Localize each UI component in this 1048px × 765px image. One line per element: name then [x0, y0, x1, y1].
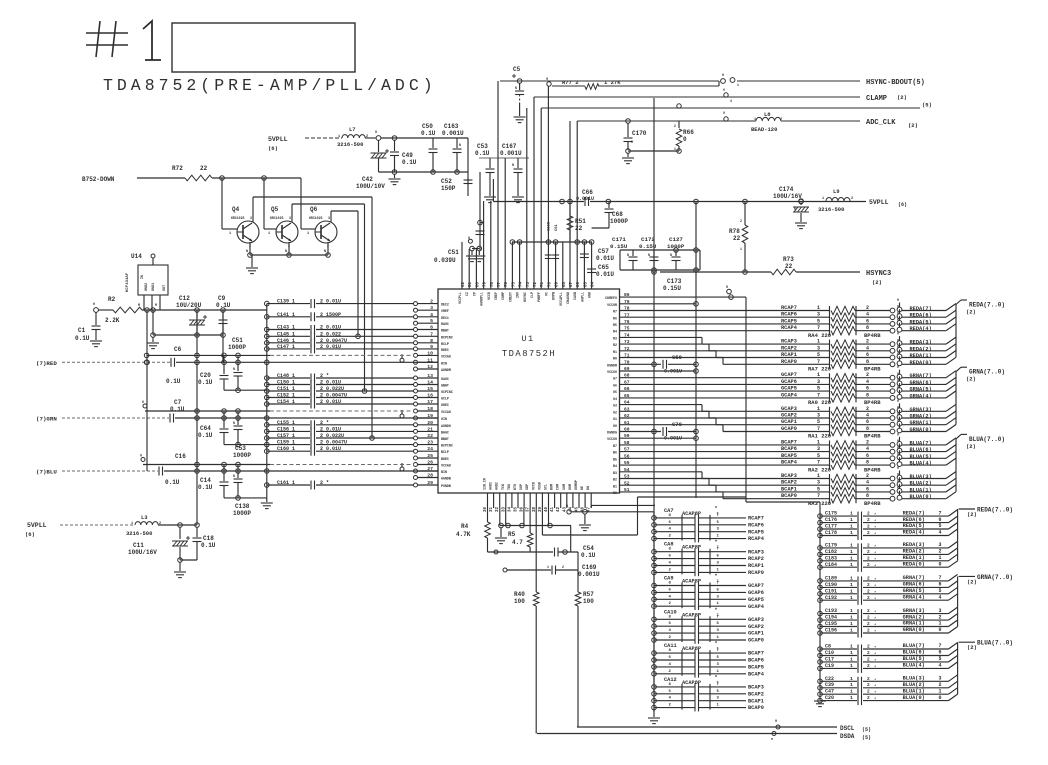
svg-text:ADC_CLK: ADC_CLK: [866, 119, 896, 127]
svg-text:GRNA(7..0): GRNA(7..0): [977, 574, 1013, 581]
svg-text:0: 0: [897, 352, 899, 356]
svg-text:C49: C49: [402, 152, 413, 159]
svg-text:5: 5: [817, 386, 820, 392]
svg-text:13: 13: [427, 373, 433, 379]
svg-text:2 0.01U: 2 0.01U: [320, 344, 341, 350]
svg-text:2 0.01U: 2 0.01U: [320, 446, 341, 452]
svg-text:G7: G7: [613, 377, 617, 381]
svg-text:2: 2: [780, 118, 782, 122]
svg-text:*: *: [874, 584, 876, 589]
svg-text:B5: B5: [613, 457, 617, 461]
svg-text:C171: C171: [612, 236, 626, 243]
svg-text:1: 1: [850, 650, 853, 656]
svg-text:2: 2: [562, 565, 564, 569]
svg-text:1: 1: [307, 232, 309, 236]
svg-text:3216-500: 3216-500: [126, 530, 152, 537]
svg-text:1: 1: [850, 676, 853, 682]
svg-text:N: N: [794, 207, 796, 211]
svg-text:2: 2: [867, 682, 870, 688]
svg-text:29: 29: [427, 480, 433, 486]
svg-text:7: 7: [817, 325, 820, 331]
svg-text:1: 1: [939, 688, 942, 694]
svg-text:C167: C167: [502, 143, 517, 150]
svg-text:C50: C50: [422, 123, 433, 130]
svg-text:G2: G2: [613, 410, 617, 414]
svg-text:GCAP4: GCAP4: [781, 392, 798, 398]
svg-text:BLUA(2): BLUA(2): [910, 481, 932, 487]
svg-text:2: 2: [867, 562, 870, 568]
svg-text:0.1U: 0.1U: [166, 378, 181, 385]
svg-text:(5): (5): [922, 102, 932, 109]
svg-text:7: 7: [939, 643, 942, 649]
svg-text:CREXT: CREXT: [508, 292, 512, 302]
svg-text:(5): (5): [862, 727, 871, 733]
svg-text:0.1U: 0.1U: [216, 302, 231, 309]
svg-text:1000P: 1000P: [233, 452, 251, 459]
svg-text:CZ: CZ: [465, 292, 469, 296]
svg-text:RCAP7: RCAP7: [748, 516, 764, 522]
svg-text:DE: DE: [580, 486, 584, 490]
svg-text:BCAP7: BCAP7: [781, 439, 797, 445]
svg-text:TDO: TDO: [507, 484, 511, 490]
svg-text:GBWT: GBWT: [441, 384, 449, 388]
svg-text:GND2: GND2: [145, 283, 149, 291]
svg-text:1: 1: [850, 582, 853, 588]
svg-text:(7)RED: (7)RED: [36, 360, 57, 367]
svg-text:0: 0: [897, 486, 899, 490]
svg-text:2: 2: [939, 614, 942, 620]
svg-text:BCAP4: BCAP4: [748, 671, 765, 677]
svg-text:RAGC: RAGC: [441, 322, 449, 326]
svg-text:0: 0: [897, 365, 899, 369]
svg-text:2: 2: [867, 621, 870, 627]
svg-text:IN: IN: [141, 275, 145, 279]
svg-text:GRNA(3): GRNA(3): [903, 608, 925, 614]
svg-text:5: 5: [817, 453, 820, 459]
svg-text:22: 22: [575, 225, 583, 232]
svg-text:1: 1: [817, 339, 820, 345]
svg-text:*: *: [874, 658, 876, 663]
svg-text:RCAP5: RCAP5: [781, 318, 797, 324]
svg-text:C18: C18: [203, 535, 214, 542]
svg-text:5VPLL: 5VPLL: [27, 522, 47, 529]
svg-text:Q6: Q6: [310, 206, 318, 213]
svg-text:C127: C127: [669, 236, 683, 243]
svg-text:C161 1: C161 1: [277, 480, 295, 486]
svg-text:BCPINC: BCPINC: [441, 444, 453, 448]
svg-text:0: 0: [897, 466, 899, 470]
svg-text:1: 1: [850, 695, 853, 701]
svg-text:68: 68: [563, 281, 567, 287]
svg-text:22: 22: [427, 433, 433, 439]
svg-text:79: 79: [484, 281, 488, 287]
svg-text:2: 2: [867, 595, 870, 601]
svg-text:7: 7: [817, 392, 820, 398]
svg-text:BLUA(1): BLUA(1): [903, 688, 925, 694]
svg-text:REDA(4): REDA(4): [903, 530, 925, 536]
svg-text:B1: B1: [613, 484, 617, 488]
svg-text:0: 0: [939, 695, 942, 701]
svg-text:0: 0: [897, 412, 899, 416]
svg-text:1: 1: [850, 663, 853, 669]
svg-text:3: 3: [289, 216, 291, 220]
svg-text:C20: C20: [825, 695, 834, 701]
svg-text:KCF431AF: KCF431AF: [126, 272, 130, 292]
svg-text:BLUA(6): BLUA(6): [910, 447, 932, 453]
svg-text:2: 2: [740, 219, 742, 223]
svg-text:C190: C190: [825, 582, 837, 588]
svg-text:C155 1: C155 1: [277, 420, 295, 426]
svg-text:RCAP1: RCAP1: [781, 352, 797, 358]
svg-text:1: 1: [850, 517, 853, 523]
svg-text:2: 2: [867, 689, 870, 695]
svg-text:3216-500: 3216-500: [818, 206, 844, 213]
svg-text:RCAP3: RCAP3: [748, 549, 764, 555]
svg-text:HSYNC: HSYNC: [523, 292, 527, 302]
svg-text:B7: B7: [613, 444, 617, 448]
svg-text:0: 0: [897, 453, 899, 457]
svg-text:64: 64: [592, 281, 596, 287]
svg-text:0.1U: 0.1U: [421, 130, 436, 137]
svg-text:BLUA(3): BLUA(3): [910, 474, 932, 480]
svg-text:M: M: [138, 303, 140, 307]
svg-text:AGNDPLL: AGNDPLL: [480, 292, 484, 306]
svg-text:N: N: [648, 253, 650, 257]
svg-text:R77 2: R77 2: [562, 79, 579, 86]
svg-text:SOP: SOP: [519, 484, 523, 490]
svg-text:C1: C1: [78, 327, 86, 334]
svg-text:100U/16V: 100U/16V: [773, 193, 802, 200]
svg-text:*: *: [874, 652, 876, 657]
svg-text:1: 1: [939, 555, 942, 561]
svg-text:REDA(3): REDA(3): [910, 340, 932, 346]
svg-text:B0: B0: [613, 491, 617, 495]
svg-text:2: 2: [867, 676, 870, 682]
svg-text:BCAP0: BCAP0: [748, 705, 764, 711]
svg-text:L8: L8: [764, 111, 771, 118]
svg-text:REDA(5): REDA(5): [910, 319, 932, 325]
svg-text:*: *: [874, 532, 876, 537]
svg-text:GCAP6: GCAP6: [748, 590, 764, 596]
svg-text:B752-DOWN: B752-DOWN: [82, 176, 115, 183]
svg-text:9: 9: [723, 88, 725, 92]
svg-text:BLUA(7): BLUA(7): [910, 440, 932, 446]
svg-text:R6: R6: [613, 316, 617, 320]
svg-text:2.2K: 2.2K: [105, 317, 120, 324]
svg-text:2: 2: [867, 608, 870, 614]
svg-text:*: *: [874, 519, 876, 524]
svg-text:G0: G0: [613, 424, 617, 428]
svg-text:DW: DW: [586, 486, 590, 490]
svg-text:CAGB: CAGB: [573, 292, 577, 300]
svg-text:BCAP4: BCAP4: [781, 460, 798, 466]
svg-text:N: N: [627, 253, 629, 257]
svg-text:70: 70: [548, 281, 552, 287]
svg-text:8: 8: [430, 338, 433, 344]
svg-text:3: 3: [328, 216, 330, 220]
svg-text:BCAP3: BCAP3: [748, 685, 764, 691]
svg-text:BLUA(4): BLUA(4): [910, 461, 932, 467]
svg-text:C183: C183: [825, 555, 837, 561]
svg-text:GIN: GIN: [441, 417, 447, 421]
svg-text:(2): (2): [967, 511, 977, 518]
svg-text:C179: C179: [825, 542, 837, 548]
svg-text:C64: C64: [200, 425, 211, 432]
svg-text:100U/10V: 100U/10V: [356, 183, 385, 190]
svg-text:KRC102S: KRC102S: [231, 216, 244, 220]
svg-text:100: 100: [514, 598, 525, 605]
svg-text:RCAP1: RCAP1: [748, 563, 764, 569]
svg-text:20: 20: [427, 420, 433, 426]
svg-text:1: 1: [850, 549, 853, 555]
svg-text:TDA8752(PRE-AMP/PLL/ADC): TDA8752(PRE-AMP/PLL/ADC): [103, 76, 437, 95]
svg-text:GRNA(0): GRNA(0): [903, 627, 925, 633]
svg-text:REDA(5): REDA(5): [903, 523, 925, 529]
svg-text:1: 1: [850, 588, 853, 594]
svg-text:1: 1: [850, 595, 853, 601]
svg-text:*: *: [874, 623, 876, 628]
svg-text:7: 7: [817, 426, 820, 432]
svg-text:0.001U: 0.001U: [500, 150, 522, 157]
svg-text:21: 21: [427, 426, 433, 432]
svg-text:R3: R3: [613, 336, 617, 340]
svg-text:0.1U: 0.1U: [170, 406, 185, 413]
svg-text:DEC1: DEC1: [441, 316, 449, 320]
svg-text:1: 1: [229, 232, 231, 236]
svg-text:1: 1: [740, 247, 742, 251]
svg-text:G5: G5: [613, 390, 617, 394]
svg-text:(6): (6): [268, 145, 278, 152]
svg-text:7: 7: [817, 460, 820, 466]
svg-text:BAGC: BAGC: [441, 430, 449, 434]
svg-text:(2): (2): [966, 376, 976, 383]
svg-text:C61: C61: [555, 223, 559, 231]
svg-text:G1: G1: [613, 417, 617, 421]
svg-text:R5: R5: [613, 323, 617, 327]
svg-text:BLUA(5): BLUA(5): [903, 656, 925, 662]
svg-text:REDA(3): REDA(3): [903, 542, 925, 548]
svg-text:RCAP4: RCAP4: [781, 325, 798, 331]
svg-text:0: 0: [726, 286, 728, 290]
svg-text:0: 0: [939, 627, 942, 633]
svg-text:0.1U: 0.1U: [475, 150, 490, 157]
svg-text:R1: R1: [613, 350, 617, 354]
svg-text:BLUA(7..0): BLUA(7..0): [969, 436, 1005, 443]
svg-text:5VPLL: 5VPLL: [869, 199, 889, 206]
svg-text:6: 6: [939, 517, 942, 523]
svg-text:AGNDB: AGNDB: [441, 477, 451, 481]
svg-text:R40: R40: [514, 591, 525, 598]
svg-text:2 1500P: 2 1500P: [320, 312, 341, 318]
svg-text:3: 3: [250, 216, 252, 220]
svg-text:GCAP5: GCAP5: [748, 597, 764, 603]
svg-text:C66: C66: [582, 189, 593, 196]
svg-text:3: 3: [817, 379, 820, 385]
svg-text:74: 74: [520, 281, 524, 287]
svg-text:69: 69: [556, 281, 560, 287]
svg-text:0: 0: [897, 479, 899, 483]
svg-text:0: 0: [897, 446, 899, 450]
svg-text:4: 4: [939, 530, 942, 536]
svg-text:1000P: 1000P: [233, 510, 251, 517]
svg-text:16: 16: [427, 393, 433, 399]
svg-text:1: 1: [850, 689, 853, 695]
svg-text:VC: VC: [544, 292, 548, 296]
svg-text:(2): (2): [967, 644, 977, 651]
svg-text:5: 5: [430, 318, 433, 324]
svg-text:(2): (2): [966, 443, 976, 450]
svg-text:23: 23: [427, 440, 433, 446]
svg-text:C157 1: C157 1: [277, 433, 295, 439]
svg-text:GRNA(1): GRNA(1): [903, 621, 925, 627]
svg-text:GRNA(6): GRNA(6): [910, 380, 932, 386]
svg-text:0.15U: 0.15U: [610, 243, 628, 250]
svg-text:(2): (2): [872, 279, 882, 286]
svg-text:R78: R78: [729, 228, 740, 235]
svg-text:DGNDG: DGNDG: [607, 431, 617, 435]
svg-text:0: 0: [897, 399, 899, 403]
svg-text:0: 0: [683, 136, 687, 143]
svg-text:GCAP0: GCAP0: [748, 638, 764, 644]
svg-text:0.01U: 0.01U: [596, 255, 614, 262]
svg-text:0.001U: 0.001U: [576, 196, 594, 202]
svg-text:1: 1: [338, 135, 340, 139]
svg-text:*: *: [874, 597, 876, 602]
svg-text:C172: C172: [641, 236, 655, 243]
svg-text:CKREFO: CKREFO: [605, 296, 617, 300]
svg-text:3: 3: [817, 413, 820, 419]
svg-text:C8: C8: [825, 644, 831, 650]
svg-text:*: *: [874, 577, 876, 582]
svg-text:C54: C54: [583, 545, 594, 552]
svg-text:0: 0: [897, 406, 899, 410]
svg-text:M: M: [155, 303, 157, 307]
svg-text:0: 0: [775, 720, 777, 724]
svg-text:B3: B3: [613, 471, 617, 475]
svg-text:*: *: [874, 665, 876, 670]
svg-text:C173: C173: [667, 278, 682, 285]
svg-text:22: 22: [200, 165, 208, 172]
svg-text:C146 1: C146 1: [277, 338, 295, 344]
svg-text:28: 28: [427, 473, 433, 479]
svg-text:BCAP6: BCAP6: [748, 658, 764, 664]
svg-text:C163: C163: [444, 123, 459, 130]
svg-text:RCAP6: RCAP6: [781, 312, 797, 318]
svg-text:C19: C19: [825, 663, 834, 669]
svg-text:0: 0: [897, 305, 899, 309]
svg-text:2 0.01U: 2 0.01U: [320, 299, 341, 305]
svg-text:C51: C51: [448, 249, 459, 256]
svg-text:7: 7: [939, 575, 942, 581]
svg-text:*: *: [874, 564, 876, 569]
svg-text:C156 1: C156 1: [277, 426, 295, 432]
svg-text:C5: C5: [513, 66, 521, 73]
svg-text:N: N: [512, 163, 514, 167]
svg-text:1000P: 1000P: [228, 344, 246, 351]
svg-text:1: 1: [754, 118, 756, 122]
svg-text:C57: C57: [598, 248, 609, 255]
svg-text:B2: B2: [613, 478, 617, 482]
svg-text:*: *: [874, 544, 876, 549]
svg-text:CLP: CLP: [530, 292, 534, 298]
svg-text:C176: C176: [825, 517, 837, 523]
svg-text:9: 9: [723, 111, 725, 115]
svg-text:OOMOP: OOMOP: [574, 480, 578, 490]
svg-text:66: 66: [577, 281, 581, 287]
svg-text:C159 1: C159 1: [277, 440, 295, 446]
svg-text:GCAP7: GCAP7: [748, 583, 764, 589]
svg-text:GRNA(7): GRNA(7): [903, 575, 925, 581]
svg-text:C145 1: C145 1: [277, 331, 295, 337]
svg-text:L9: L9: [833, 188, 840, 195]
svg-text:M: M: [631, 140, 633, 144]
svg-text:17: 17: [427, 399, 433, 405]
svg-text:4: 4: [730, 99, 732, 103]
svg-text:2 *: 2 *: [320, 420, 329, 426]
svg-text:12: 12: [427, 364, 433, 370]
svg-text:L3: L3: [141, 514, 148, 521]
svg-text:GCAP3: GCAP3: [781, 406, 797, 412]
svg-text:CLAMP: CLAMP: [866, 95, 887, 103]
svg-text:HSYNC-BDOUT(5): HSYNC-BDOUT(5): [866, 79, 925, 87]
svg-text:C10: C10: [825, 650, 834, 656]
svg-text:(2): (2): [966, 309, 976, 316]
svg-text:*: *: [874, 697, 876, 702]
svg-text:71: 71: [541, 281, 545, 287]
svg-text:GCAP4: GCAP4: [748, 604, 765, 610]
svg-text:AGNDG: AGNDG: [441, 424, 451, 428]
svg-text:1: 1: [822, 197, 824, 201]
svg-text:C178: C178: [825, 530, 837, 536]
svg-text:4.7K: 4.7K: [456, 531, 471, 538]
svg-text:2: 2: [867, 542, 870, 548]
svg-text:2: 2: [867, 582, 870, 588]
svg-text:REDA(2): REDA(2): [903, 549, 925, 555]
svg-text:REDA(7..0): REDA(7..0): [969, 302, 1005, 309]
svg-text:0.1U: 0.1U: [198, 484, 213, 491]
svg-text:3: 3: [430, 305, 433, 311]
svg-text:GAGC: GAGC: [441, 377, 449, 381]
svg-text:GCAP1: GCAP1: [781, 419, 797, 425]
svg-text:5: 5: [817, 318, 820, 324]
svg-text:0: 0: [897, 318, 899, 322]
svg-text:O: O: [566, 505, 568, 509]
svg-text:C175: C175: [825, 511, 837, 517]
svg-text:1: 1: [268, 232, 270, 236]
svg-text:1: 1: [850, 615, 853, 621]
svg-text:26: 26: [427, 460, 433, 466]
svg-text:10U/20U: 10U/20U: [176, 302, 202, 309]
svg-text:0.001U: 0.001U: [578, 571, 600, 578]
svg-text:1: 1: [131, 522, 133, 526]
svg-text:2 0.01U: 2 0.01U: [320, 380, 341, 386]
svg-text:0.1U: 0.1U: [402, 159, 417, 166]
svg-text:1: 1: [850, 682, 853, 688]
svg-text:REDA(6): REDA(6): [903, 517, 925, 523]
svg-text:C170: C170: [632, 130, 647, 137]
svg-text:(7)BLU: (7)BLU: [36, 469, 57, 476]
svg-text:2: 2: [867, 628, 870, 634]
svg-text:4: 4: [430, 312, 433, 318]
svg-text:2: 2: [867, 555, 870, 561]
svg-text:REDA(7..0): REDA(7..0): [977, 507, 1013, 514]
svg-text:0.01U: 0.01U: [596, 271, 614, 278]
svg-text:*: *: [874, 646, 876, 651]
svg-text:RCPINC: RCPINC: [441, 335, 453, 339]
svg-text:BCAP0: BCAP0: [781, 493, 797, 499]
svg-text:7: 7: [817, 359, 820, 365]
svg-text:7: 7: [939, 510, 942, 516]
